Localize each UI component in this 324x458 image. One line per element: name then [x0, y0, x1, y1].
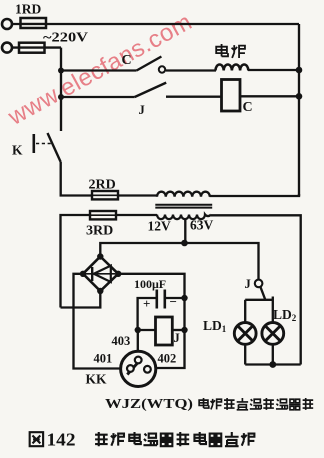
svg-text:2RD: 2RD — [89, 178, 116, 193]
wire: secondary rail to bridge bottom — [61, 291, 101, 308]
svg-text:C: C — [122, 53, 132, 68]
wire: KK 403 top lead — [137, 330, 139, 356]
svg-text:KK: KK — [86, 372, 108, 387]
junction: bridge bottom vertex — [97, 288, 103, 294]
junction: bridge top vertex — [97, 253, 103, 259]
wire: lamp bottom bus — [245, 363, 301, 365]
transformer T — [155, 192, 212, 219]
wire: lamp top branch — [245, 299, 273, 301]
fuse 3RD — [90, 211, 116, 219]
svg-text:100μF: 100μF — [134, 277, 166, 291]
wire: furnace to right rail — [248, 69, 299, 71]
junction: left rail to switch J branch — [58, 94, 64, 100]
wire: left rail down to K switch — [60, 48, 62, 131]
svg-text:401: 401 — [94, 352, 113, 366]
wire: cap minus lead — [166, 297, 185, 299]
wire: K switch bottom to 2RD corner — [61, 162, 92, 196]
fuse 2 — [19, 43, 45, 53]
junction: capacitor minus node — [181, 295, 187, 301]
svg-text:~220V: ~220V — [43, 31, 88, 46]
junction: right rail / coil C wire — [296, 93, 303, 100]
wire: coil C to right rail — [240, 95, 299, 97]
caption fig 142 — [30, 432, 43, 446]
junction: left rail to switch C branch — [58, 68, 64, 74]
svg-text:403: 403 — [112, 334, 131, 348]
svg-text:−: − — [170, 294, 177, 309]
svg-text:3RD: 3RD — [86, 224, 113, 239]
wire: branch to switch C — [61, 69, 137, 71]
terminal input L — [2, 19, 12, 29]
svg-text:J: J — [139, 103, 145, 117]
switch J (top) — [135, 83, 167, 97]
wire: switch J to contactor coil C — [166, 96, 221, 98]
wire: LD1 bottom lead — [244, 344, 246, 364]
svg-text:WJZ(WTQ): WJZ(WTQ) — [105, 396, 193, 411]
relay coil J — [156, 317, 173, 345]
svg-text:K: K — [12, 143, 23, 158]
svg-text:402: 402 — [158, 352, 177, 366]
switch K — [34, 133, 61, 162]
svg-text:J: J — [245, 277, 251, 291]
fuse 2RD — [92, 191, 118, 199]
wire: top line from fuse 1RD to right rail — [12, 23, 299, 25]
KK pressure gauge — [121, 351, 156, 386]
wire: transformer primary right to mains rail — [210, 194, 300, 196]
wire: coil J right lead — [173, 329, 185, 331]
wire: DC- vertical cap to coil to KK402 — [156, 298, 185, 368]
svg-text:142: 142 — [47, 430, 76, 450]
switch C — [137, 57, 166, 73]
wire: bridge right vertex to DC- vertical — [118, 274, 184, 298]
wire: LD2 bottom lead — [272, 344, 274, 364]
fuse 1RD — [21, 18, 47, 28]
contactor coil C — [222, 80, 241, 112]
wire: J contact blade (right) — [260, 287, 265, 300]
wire: 3RD fuse to secondary left — [116, 214, 157, 216]
wire: bridge left vertex to KK 401 — [74, 274, 121, 369]
capacitor 100uF — [157, 290, 165, 309]
wire: LD2 top lead — [272, 297, 274, 323]
wire: coil J left lead — [138, 329, 156, 331]
lamp LD2 — [262, 323, 284, 345]
wire: fuse2 output to left rail corner — [12, 46, 61, 48]
terminal input N — [2, 43, 12, 53]
wire: right rail (mains) — [298, 24, 300, 196]
J contact terminal (right) — [255, 280, 263, 288]
wire: cap plus lead — [138, 298, 156, 330]
wire: center tap down — [184, 218, 186, 243]
junction: 12V center-tap node — [181, 240, 188, 247]
wire: ac node to J contact — [185, 243, 259, 280]
junction: lamp bottom bus — [269, 361, 276, 368]
wire: branch to switch J — [61, 96, 135, 98]
heater element (furnace coil) — [216, 64, 249, 70]
svg-text:12V: 12V — [148, 219, 172, 234]
wire: secondary right lead to lamp rail — [211, 215, 301, 364]
junction: right rail / furnace wire — [296, 67, 303, 74]
svg-text:1RD: 1RD — [15, 2, 41, 17]
junction: bridge left vertex — [80, 271, 86, 277]
svg-text:J: J — [174, 331, 180, 345]
svg-text:C: C — [243, 100, 253, 115]
wire: switch C contact to furnace — [166, 69, 216, 71]
wire: 2RD fuse to transformer primary — [118, 194, 157, 196]
wire: 3RD corner and secondary rail — [61, 215, 91, 308]
wire: ac node to bridge top — [100, 243, 184, 257]
label 电炉 — [216, 44, 245, 58]
bridge rectifier — [83, 257, 118, 292]
svg-text:+: + — [143, 296, 150, 311]
wire: LD1 top lead — [244, 300, 246, 323]
junction: coil J left node — [135, 327, 141, 333]
svg-text:63V: 63V — [190, 218, 214, 233]
junction: bridge right vertex — [115, 271, 121, 277]
junction: coil J right node — [181, 327, 187, 333]
lamp LD1 — [234, 323, 256, 345]
